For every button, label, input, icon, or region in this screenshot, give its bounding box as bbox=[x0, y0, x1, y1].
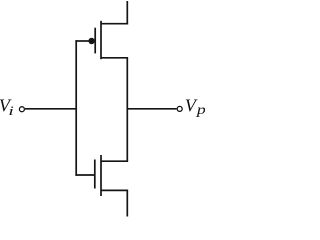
transistor Q1 PMOS drain lead bbox=[101, 57, 128, 59]
label Vp bbox=[185, 95, 206, 117]
label Vi bbox=[0, 95, 14, 118]
transistor Q2 NMOS drain lead bbox=[101, 160, 128, 162]
transistor Q1 PMOS source lead bbox=[101, 23, 128, 25]
transistor Q2 NMOS gate bar bbox=[94, 160, 96, 189]
wire NMOS gate lead bbox=[75, 174, 94, 176]
wire output (node to Vp) bbox=[127, 108, 176, 110]
svg-text:i: i bbox=[8, 103, 14, 118]
transistor Q1 PMOS gate bar bbox=[94, 28, 96, 54]
svg-text:p: p bbox=[196, 103, 205, 118]
transistor Q2 NMOS source lead bbox=[101, 189, 128, 191]
output terminal circle Vp bbox=[177, 106, 182, 111]
transistor Q1 PMOS channel bar bbox=[100, 21, 102, 59]
wire ground stub bbox=[126, 190, 128, 216]
transistor Q2 NMOS channel bar bbox=[100, 155, 102, 196]
input terminal circle Vi bbox=[19, 107, 24, 112]
wire gate vertical (node G) bbox=[75, 40, 77, 176]
wire input (Vi to gate node) bbox=[25, 108, 77, 110]
PMOS bubble/junction dot on gate bbox=[88, 38, 94, 44]
wire output vertical (PMOS drain to NMOS drain) bbox=[126, 58, 128, 161]
wire PMOS gate lead bbox=[75, 40, 90, 42]
wire VDD stub bbox=[126, 1, 128, 25]
